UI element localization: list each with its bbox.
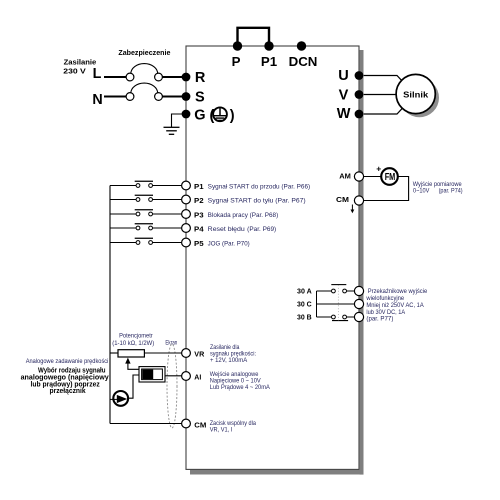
- P2 input row: [110, 195, 306, 205]
- terminal U: [355, 71, 364, 80]
- svg-text:230 V: 230 V: [63, 67, 86, 76]
- terminal CM right: [354, 196, 363, 205]
- relay contact 30A: [317, 290, 332, 292]
- svg-text:P1: P1: [261, 54, 278, 69]
- svg-text:Reset błędu: Reset błędu: [208, 226, 245, 233]
- svg-text:Przekaźnikowe wyjście: Przekaźnikowe wyjście: [368, 288, 428, 295]
- terminal CM left: [182, 419, 191, 428]
- terminal V: [355, 90, 364, 99]
- svg-text:G: G: [194, 108, 205, 124]
- svg-text:L: L: [93, 66, 102, 82]
- wire V to motor: [364, 94, 397, 96]
- svg-text:Ekran: Ekran: [165, 340, 177, 347]
- arrow below CM: [351, 205, 353, 210]
- switch S1 inner box: [142, 369, 163, 380]
- svg-text:P5: P5: [194, 239, 204, 248]
- terminal VR: [182, 349, 191, 358]
- P3 input row: [110, 210, 278, 220]
- FM meter: [381, 168, 398, 185]
- svg-text:CM: CM: [194, 420, 206, 429]
- P4 input row: [110, 224, 276, 234]
- wire bus to pot: [110, 352, 118, 354]
- svg-text:Zasilanie: Zasilanie: [64, 58, 97, 67]
- svg-text:30 A: 30 A: [297, 287, 312, 296]
- svg-text:AM: AM: [339, 172, 351, 181]
- motor M1 circle: [396, 74, 435, 113]
- svg-text:Blokada pracy (Par. P68): Blokada pracy (Par. P68): [208, 212, 279, 219]
- terminal 30B: [354, 312, 363, 321]
- jumper wire P to P1: [238, 28, 270, 46]
- svg-text:Sygnał START do tyłu (Par. P67: Sygnał START do tyłu (Par. P67): [208, 198, 306, 205]
- svg-text:30 B: 30 B: [297, 313, 312, 322]
- wire current source to switch: [129, 375, 139, 398]
- switch S1 black knob: [142, 370, 153, 379]
- wire pot to VR: [144, 352, 181, 354]
- relay contact 30B: [317, 316, 332, 318]
- P1 input row: [110, 181, 310, 191]
- PE earth symbol circle: [213, 107, 227, 121]
- svg-text:30 C: 30 C: [297, 300, 312, 309]
- potentiometer R2 body: [118, 350, 144, 357]
- terminal DCN: [297, 41, 306, 50]
- wire N to fuse: [104, 96, 126, 98]
- P5 input row: [110, 238, 250, 248]
- svg-text:S: S: [195, 90, 205, 106]
- svg-text:VR: VR: [194, 349, 204, 358]
- svg-text:P3: P3: [194, 210, 204, 219]
- svg-text:CM: CM: [336, 195, 349, 204]
- svg-text:FM: FM: [385, 172, 396, 183]
- svg-text:P1: P1: [194, 182, 204, 191]
- svg-text:N: N: [92, 92, 102, 108]
- svg-text:wielofunkcyjne: wielofunkcyjne: [365, 295, 404, 302]
- fuse F2 contact circles: [126, 93, 134, 101]
- svg-text:0~10V: 0~10V: [413, 188, 430, 195]
- svg-text:Zabezpieczenie: Zabezpieczenie: [118, 48, 170, 57]
- inverter main box U1: [186, 46, 359, 469]
- wire U to motor: [364, 76, 403, 82]
- fuse F1 arc: [131, 64, 158, 74]
- wire AM to FM: [364, 176, 382, 178]
- terminal 30A: [354, 286, 363, 295]
- svg-text:DCN: DCN: [289, 54, 318, 69]
- svg-text:Analogowe zadawanie prędkości: Analogowe zadawanie prędkości: [26, 358, 109, 365]
- svg-text:P: P: [232, 54, 241, 69]
- relay common bus: [316, 291, 318, 317]
- wire bus to CM: [110, 423, 182, 425]
- relay mechanical link dotted: [337, 285, 339, 320]
- svg-text:P4: P4: [194, 224, 204, 233]
- wire L to fuse: [104, 76, 126, 78]
- inverter box shadow right: [360, 50, 364, 475]
- terminal W: [355, 110, 364, 119]
- digital input bus wire: [109, 186, 111, 424]
- svg-text:(par. P74): (par. P74): [439, 188, 463, 195]
- relay contact 30C wire: [317, 303, 355, 305]
- svg-text:VR, V1, I: VR, V1, I: [210, 426, 233, 433]
- svg-text:W: W: [337, 106, 351, 122]
- fuse F2 arc: [131, 83, 158, 93]
- wire fuse to S: [162, 96, 182, 98]
- svg-text:(1-10 kΩ, 1/2W): (1-10 kΩ, 1/2W): [112, 340, 154, 347]
- ground symbol: [164, 126, 180, 128]
- terminal P1: [264, 41, 273, 50]
- svg-text:(Par. P69): (Par. P69): [247, 226, 276, 233]
- svg-text:AI: AI: [194, 373, 201, 382]
- terminal P: [233, 41, 242, 50]
- svg-text:Sygnał START do przodu (Par. P: Sygnał START do przodu (Par. P66): [208, 184, 311, 191]
- svg-text:Lub Prądowe 4 ~ 20mA: Lub Prądowe 4 ~ 20mA: [210, 384, 271, 391]
- svg-text:przełącznik: przełącznik: [50, 386, 87, 395]
- svg-text:+: +: [376, 164, 381, 174]
- inverter box shadow bottom: [190, 470, 364, 475]
- wire G to ground: [172, 114, 184, 127]
- terminal G: [182, 110, 191, 119]
- fuse F1 contact circles: [126, 73, 134, 81]
- svg-text:V: V: [339, 87, 349, 103]
- svg-text:R: R: [195, 70, 206, 86]
- terminal 30C: [354, 299, 363, 308]
- svg-text:P2: P2: [194, 196, 204, 205]
- wire fuse to R: [162, 76, 182, 78]
- terminal AM: [354, 172, 363, 181]
- wire switch to AI: [165, 375, 182, 377]
- switch S1 outer box: [139, 367, 165, 382]
- svg-text:(par. P77): (par. P77): [366, 316, 393, 323]
- wire FM to CM: [364, 177, 409, 201]
- current source I1: [113, 391, 128, 406]
- svg-text:U: U: [338, 68, 348, 84]
- terminal AI: [182, 372, 191, 381]
- wire W to motor: [364, 108, 403, 114]
- shield ellipse Ekran: [167, 344, 177, 428]
- motor shadow: [400, 78, 439, 117]
- svg-text:JOG (Par. P70): JOG (Par. P70): [208, 241, 250, 248]
- terminal S: [182, 92, 191, 101]
- svg-text:Silnik: Silnik: [403, 90, 428, 100]
- pot wiper arrow: [125, 358, 130, 364]
- svg-text:): ): [230, 108, 235, 124]
- terminal R: [182, 73, 191, 82]
- svg-text:Potencjometr: Potencjometr: [119, 333, 153, 340]
- svg-text:+ 12V, 100mA: + 12V, 100mA: [210, 357, 248, 364]
